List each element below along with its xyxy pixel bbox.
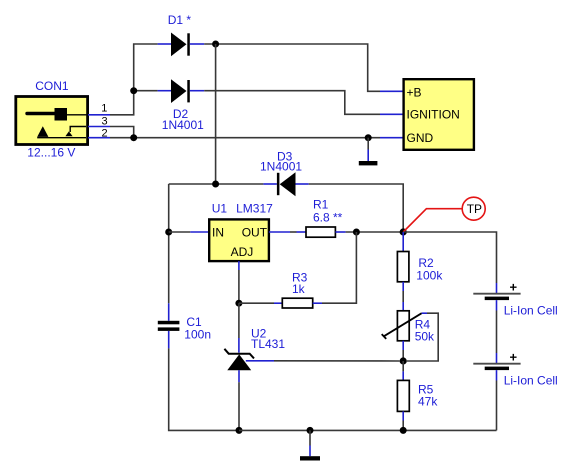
pin stub IGNITION: [380, 113, 404, 115]
wire TP node to battery rail: [403, 232, 496, 283]
wire U2 ref to junction: [274, 360, 400, 362]
resistor R5: [397, 361, 409, 430]
pin stub +B: [380, 90, 404, 92]
ground symbol bottom: [300, 430, 320, 460]
svg-text:+: +: [510, 280, 518, 295]
wire junction to R3: [239, 302, 274, 304]
svg-text:Li-Ion Cell: Li-Ion Cell: [504, 374, 558, 388]
wire U2 anode down: [238, 370, 240, 382]
wire R3 feedback vertical: [322, 232, 356, 303]
wire pin3 down to pin2: [110, 127, 134, 138]
svg-text:1N4001: 1N4001: [162, 118, 204, 132]
wire D1 junction down to D3 rail: [215, 44, 217, 184]
wire between cells: [496, 300, 498, 364]
svg-text:1k: 1k: [292, 282, 306, 296]
wire ADJ down: [238, 261, 240, 270]
diode D1: [158, 33, 205, 57]
svg-text:100k: 100k: [416, 268, 443, 282]
svg-text:ADJ: ADJ: [231, 245, 254, 259]
wire D3 rail to TP column: [309, 184, 404, 232]
resistor R1: [297, 227, 346, 237]
pin stub OUT: [269, 231, 290, 233]
svg-text:U1: U1: [212, 202, 228, 216]
diode D2: [158, 79, 205, 103]
svg-text:1N4001: 1N4001: [260, 160, 302, 174]
svg-text:CON1: CON1: [35, 79, 69, 93]
junction IN / left rail: [165, 229, 172, 236]
CON1 pin 3 stub: [88, 126, 110, 128]
wire left rail: [168, 184, 170, 303]
wire D2 cathode to IGNITION: [204, 91, 380, 115]
pin stub GND: [380, 137, 404, 139]
junction D3 rail / D1 column: [212, 181, 219, 188]
wire OUT to R1: [290, 231, 297, 233]
connector CON1 body: [16, 97, 88, 145]
svg-text:OUT: OUT: [242, 225, 268, 239]
diode D3: [263, 172, 308, 196]
svg-text:TL431: TL431: [251, 337, 285, 351]
svg-text:1: 1: [101, 103, 107, 115]
wire GND net horizontal: [110, 137, 380, 139]
capacitor C1: [158, 303, 180, 348]
junction ADJ/R3/U2: [235, 300, 242, 307]
junction U2 anode / bottom rail: [236, 427, 243, 434]
wire left rail to IN: [169, 231, 191, 233]
wire U2 cathode: [238, 303, 240, 338]
wire pin1 to diode column: [110, 44, 158, 115]
wire R2 to R4: [402, 291, 404, 302]
junction D1 output: [212, 41, 219, 48]
svg-text:IN: IN: [212, 225, 224, 239]
svg-text:47k: 47k: [418, 395, 438, 409]
CON1 pin 2 stub: [88, 137, 110, 139]
junction GND ground: [365, 134, 372, 141]
wire left rail bottom: [169, 348, 239, 430]
junction R1/R3: [353, 229, 360, 236]
node TP junction: [400, 228, 407, 235]
ground symbol top: [359, 138, 378, 166]
svg-text:Li-Ion Cell: Li-Ion Cell: [504, 304, 558, 318]
battery cell 2: [473, 364, 520, 370]
wire R4 wiper loop: [407, 313, 438, 361]
svg-text:100n: 100n: [184, 327, 211, 341]
wire D3 rail horizontal: [169, 183, 264, 185]
junction pin3/pin2: [130, 134, 137, 141]
svg-text:TP: TP: [467, 202, 482, 216]
regulator U1 body: [209, 219, 269, 261]
battery cell 1: [473, 294, 520, 300]
svg-text:D1 *: D1 *: [168, 13, 192, 27]
pin stub IN: [190, 231, 209, 233]
junction bottom ground: [307, 427, 314, 434]
wire battery rail upper: [496, 283, 498, 294]
svg-text:IGNITION: IGNITION: [407, 107, 460, 121]
trimmer R4: [382, 302, 427, 350]
svg-text:+B: +B: [407, 85, 422, 99]
svg-text:LM317: LM317: [236, 202, 273, 216]
svg-text:+: +: [510, 349, 518, 364]
CON1 pin 1 stub: [88, 114, 110, 116]
svg-text:GND: GND: [407, 131, 434, 145]
wire R4 bottom to junction: [402, 350, 404, 361]
svg-text:50k: 50k: [415, 330, 435, 344]
shunt regulator U2 TL431: [224, 349, 274, 370]
svg-text:12...16 V: 12...16 V: [27, 146, 75, 160]
resistor R3: [274, 298, 322, 308]
junction pin1/D2: [130, 87, 137, 94]
wire D2 anode from vertical: [134, 90, 158, 92]
ECU connector box: [404, 79, 474, 150]
svg-text:3: 3: [102, 115, 108, 127]
wire battery rail lower: [496, 370, 498, 430]
resistor R2: [397, 232, 409, 291]
svg-text:6.8 **: 6.8 **: [313, 210, 343, 224]
testpoint TP: [403, 197, 485, 232]
wire bottom rail: [239, 429, 497, 431]
wire R1 to TP node: [346, 231, 404, 233]
junction R4/R5/REF: [400, 357, 407, 364]
junction R5 / bottom rail: [400, 427, 407, 434]
wire D1 cathode to +B: [204, 44, 380, 91]
